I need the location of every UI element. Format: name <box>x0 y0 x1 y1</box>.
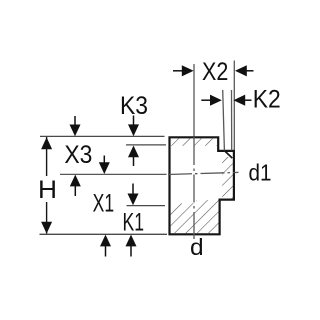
H arrow up <box>41 137 52 149</box>
X2 right extension line <box>233 61 235 151</box>
X1 upper arrow (down) <box>103 156 105 165</box>
vertical centerline d-axis (extension above) <box>193 64 195 137</box>
svg-text:d1: d1 <box>249 160 272 186</box>
K3 lower arrow (up) <box>133 157 135 166</box>
hatch right wall strip <box>222 157 233 199</box>
svg-text:K3: K3 <box>120 93 148 120</box>
svg-text:K1: K1 <box>123 209 145 236</box>
K1 upper arrow (down) <box>132 184 134 195</box>
K2 inner extension line <box>231 90 233 151</box>
K3 socket depth line <box>126 144 166 146</box>
vertical centerline d-axis (dash-dot in body) <box>193 137 195 239</box>
svg-text:H: H <box>38 177 57 204</box>
X3 upper arrow (down) <box>74 116 76 126</box>
hatch top wall strip <box>170 138 217 145</box>
H arrow down <box>41 222 52 234</box>
svg-text:X3: X3 <box>64 142 92 169</box>
H dimension line lower <box>46 202 48 234</box>
hatch bottom wall band <box>170 200 218 233</box>
horizontal branch axis d1 (extension left) <box>60 173 167 175</box>
H dimension line upper <box>46 137 48 176</box>
fitting body outline <box>170 137 234 234</box>
socket chamfer (right opening) <box>225 151 232 158</box>
bottom face extension line <box>40 233 168 235</box>
K2 right arrow <box>245 99 252 101</box>
top face extension line <box>40 135 165 137</box>
X3 lower arrow (up) <box>74 186 76 197</box>
horizontal branch axis d1 (dash-dot in body) <box>168 172 239 174</box>
K1 socket depth line <box>127 205 166 207</box>
X1 lower arrow (up) <box>105 245 107 257</box>
svg-text:d: d <box>190 234 204 260</box>
svg-text:X1: X1 <box>93 191 115 218</box>
K1 lower arrow (up) <box>130 245 132 257</box>
svg-text:X2: X2 <box>202 59 228 86</box>
X2 left arrow <box>173 70 183 72</box>
X2 right arrow <box>246 70 253 72</box>
K2 left arrow <box>201 99 210 101</box>
svg-text:K2: K2 <box>253 87 281 114</box>
K3 upper arrow (down) <box>133 116 135 126</box>
K2 left extension line (slanted) <box>223 90 225 151</box>
